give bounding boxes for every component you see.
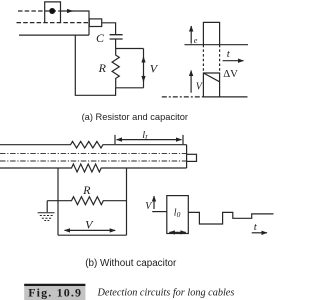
baseline lower waveform solid part (a) — [203, 96, 247, 98]
svg-text:C: C — [96, 31, 105, 45]
svg-text:lt: lt — [142, 130, 148, 142]
figure number shaded box — [24, 285, 85, 300]
wire capacitor to node (a) — [115, 39, 117, 48]
svg-text:V: V — [196, 82, 204, 93]
svg-text:l0: l0 — [174, 207, 181, 219]
charge dot on cable (a) — [49, 8, 55, 14]
dimension lt left tick (b) — [114, 135, 116, 144]
dashed projection right (waveform a) — [219, 45, 221, 73]
wire bottom terminal stub (a) — [116, 87, 144, 89]
svg-text:t: t — [227, 48, 231, 60]
axis arrow V (waveform a) — [190, 71, 192, 93]
voltage arrowhead up on loop wire (a) — [143, 57, 145, 62]
svg-text:V: V — [85, 217, 94, 231]
measuring loop right vertical (b) — [126, 168, 128, 235]
pulse width arrow (waveform b) — [169, 231, 186, 233]
capacitor C plates — [110, 35, 123, 39]
svg-text:R: R — [98, 61, 107, 75]
baseline lower waveform dashed part (a) — [162, 96, 204, 98]
svg-text:V: V — [145, 201, 153, 212]
t axis arrow (waveform a) — [223, 60, 244, 62]
cable end vertical (a) — [88, 11, 90, 36]
wire upper conductor solid end segment (a) — [62, 10, 89, 12]
cable outer conductor bottom line with series resistance (b) — [0, 164, 187, 172]
droop diagonal dV (waveform a) — [203, 73, 219, 82]
wire upper cable conductor (a) dash-dot — [18, 10, 62, 12]
cable sheath line (a) — [19, 34, 89, 36]
baseline stub (waveform b) — [152, 211, 167, 213]
arrowhead direction of travel (a) — [67, 10, 73, 12]
wire right side of measuring loop (a) — [143, 49, 145, 88]
ground stub wire (b) — [46, 201, 48, 213]
axis arrow V (waveform b) — [153, 196, 155, 209]
output pulse with droop (waveform a) — [203, 73, 219, 97]
cable inner conductor dashed lower (b) — [0, 160, 187, 162]
dimension lt arrow (b) — [117, 139, 182, 141]
reflection steps waveform (b) — [188, 212, 273, 224]
cable outer conductor top line with series resistance (b) — [0, 141, 187, 148]
dashed projection left (waveform a) — [202, 45, 204, 73]
wire box to capacitor (a) — [102, 23, 116, 34]
ground symbol (b) — [38, 213, 55, 221]
t axis arrow (waveform b) — [252, 232, 267, 234]
figure number box top border — [24, 284, 85, 286]
input pulse rectangle (waveform a) — [203, 22, 219, 44]
ground return wire (a) — [75, 35, 115, 95]
svg-text:(a) Resistor and capacitor: (a) Resistor and capacitor — [82, 112, 188, 122]
axis arrow e (waveform a) — [190, 26, 192, 44]
svg-text:Fig. 10.9: Fig. 10.9 — [28, 285, 82, 299]
svg-text:(b) Without capacitor: (b) Without capacitor — [85, 258, 177, 269]
resistor R (b) zigzag branch — [47, 197, 126, 205]
cable far end vertical (b) — [186, 145, 188, 168]
svg-text:R: R — [82, 183, 91, 197]
tall pulse rectangle (waveform b) — [167, 196, 189, 234]
termination box (a) — [89, 19, 101, 27]
voltage dimension arrow V (b) — [65, 229, 116, 231]
wire node to top terminal stub (a) — [116, 48, 144, 50]
baseline upper waveform (a) — [185, 44, 249, 46]
travelling pulse rectangle on cable (a) — [45, 2, 61, 23]
svg-text:Detection circuits for long ca: Detection circuits for long cables — [97, 287, 235, 298]
svg-text:t: t — [254, 221, 258, 233]
svg-text:e: e — [194, 36, 198, 45]
dimension lt right tick (b) — [182, 135, 184, 144]
svg-text:ΔV: ΔV — [223, 68, 238, 80]
wire lower cable conductor (a) dash-dot — [17, 22, 90, 24]
measuring loop left vertical (b) — [57, 168, 59, 235]
voltage arrowhead down on loop wire (a) — [143, 74, 145, 82]
measuring loop bottom wire (b) — [58, 234, 127, 236]
svg-text:V: V — [150, 61, 159, 75]
resistor R (a) zigzag — [112, 49, 119, 88]
inner conductor end stub (b) — [187, 154, 197, 161]
cable inner conductor dashed upper (b) — [0, 152, 187, 154]
